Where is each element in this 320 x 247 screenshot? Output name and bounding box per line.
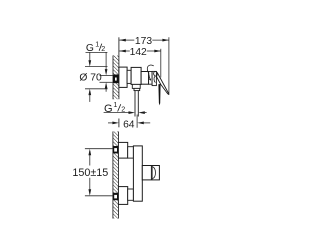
svg-text:64: 64	[123, 119, 135, 130]
svg-text:1: 1	[113, 100, 117, 109]
svg-text:142: 142	[130, 47, 147, 58]
svg-text:Ø 70: Ø 70	[79, 73, 102, 84]
svg-text:2: 2	[121, 105, 125, 114]
svg-text:150±15: 150±15	[72, 167, 108, 179]
svg-text:173: 173	[135, 36, 152, 47]
svg-text:1: 1	[95, 39, 99, 48]
svg-text:2: 2	[101, 44, 105, 53]
